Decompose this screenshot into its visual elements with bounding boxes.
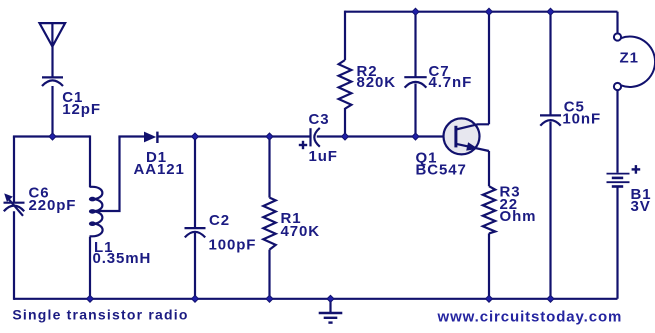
wire tank top	[13, 135, 90, 137]
svg-text:100pF: 100pF	[209, 237, 257, 254]
svg-text:AA121: AA121	[134, 161, 185, 178]
wire Z1 to battery	[616, 90, 618, 173]
wire C3 to base	[317, 135, 454, 137]
node base / C7	[412, 133, 419, 140]
capacitor C1	[42, 77, 63, 86]
arrow head of C6	[4, 193, 13, 202]
wire C5 top lead	[549, 12, 551, 116]
capacitor C5	[540, 115, 561, 125]
wire C2 bottom lead	[194, 233, 196, 299]
wire L1 tap	[94, 137, 120, 212]
svg-text:C2: C2	[209, 212, 230, 229]
node R1 top	[266, 133, 273, 140]
svg-text:Ohm: Ohm	[500, 208, 537, 225]
wire C7 bottom lead	[414, 84, 416, 137]
capacitor C2	[185, 228, 206, 237]
plus sign of B1	[632, 165, 641, 174]
wire D1 cathode to C3	[159, 135, 311, 137]
svg-text:12pF: 12pF	[62, 101, 101, 118]
svg-text:470K: 470K	[281, 223, 320, 240]
wire top bus right drop to Z1	[616, 12, 618, 34]
svg-text:10nF: 10nF	[562, 111, 601, 128]
plus sign of C3	[299, 141, 307, 149]
wire R2 bottom lead	[344, 108, 346, 137]
node C5 bottom	[547, 295, 554, 302]
node C5 top	[547, 8, 554, 15]
earphone Z1	[614, 33, 655, 90]
node R3 bottom	[486, 295, 493, 302]
svg-text:220pF: 220pF	[29, 197, 77, 214]
svg-text:3V: 3V	[631, 198, 651, 215]
wire R1 top lead	[268, 137, 270, 198]
resistor R3	[483, 186, 495, 233]
resistor R1	[263, 198, 275, 250]
wire R2 top lead	[344, 11, 346, 60]
svg-text:www.circuitstoday.com: www.circuitstoday.com	[437, 309, 623, 326]
wire collector riser	[488, 12, 490, 125]
transistor Q1	[444, 118, 490, 154]
node antenna/tank	[49, 133, 56, 140]
capacitor C7	[404, 77, 426, 87]
wire top bus	[345, 11, 618, 13]
svg-text:Z1: Z1	[620, 49, 639, 66]
svg-text:C3: C3	[309, 111, 330, 128]
wire tap to D1 anode	[118, 135, 144, 137]
capacitor C3 (electrolytic)	[311, 128, 320, 147]
antenna	[40, 23, 66, 46]
wire L1 top lead	[89, 135, 91, 187]
node detector out / C2	[192, 133, 199, 140]
wire C2 top lead	[194, 137, 196, 229]
svg-text:820K: 820K	[357, 74, 396, 91]
wire left riser lower (C6 bottom to bus)	[13, 211, 15, 300]
wire battery to bottom bus	[616, 188, 618, 299]
svg-text:Single transistor radio: Single transistor radio	[12, 307, 188, 323]
wire emitter to R3	[488, 151, 490, 186]
node C7 top	[412, 8, 419, 15]
svg-text:4.7nF: 4.7nF	[429, 74, 473, 91]
node ground	[327, 295, 334, 302]
wire left riser upper (tank top to C6)	[13, 137, 15, 203]
diode D1	[144, 132, 157, 143]
resistor R2	[339, 60, 352, 109]
wire L1 bottom lead	[89, 237, 91, 300]
node R2 bottom	[342, 133, 349, 140]
node C2 bottom	[192, 295, 199, 302]
battery B1	[607, 174, 630, 187]
wire C1 to tank junction	[51, 86, 53, 137]
inductor L1	[90, 187, 103, 237]
svg-text:0.35mH: 0.35mH	[93, 250, 152, 267]
svg-text:1uF: 1uF	[309, 148, 338, 165]
wire C5 bottom lead	[549, 122, 551, 299]
wire C7 top lead	[414, 12, 416, 78]
wire R1 bottom lead	[268, 250, 270, 299]
node collector top	[486, 8, 493, 15]
capacitor C6 (variable)	[4, 197, 25, 216]
svg-text:BC547: BC547	[416, 161, 467, 178]
node R1 bottom	[266, 295, 273, 302]
wire R3 bottom lead	[488, 233, 490, 298]
ground	[319, 299, 343, 323]
wire antenna lead	[51, 47, 53, 78]
wire bottom bus	[14, 298, 618, 300]
node L1 bottom	[87, 295, 94, 302]
